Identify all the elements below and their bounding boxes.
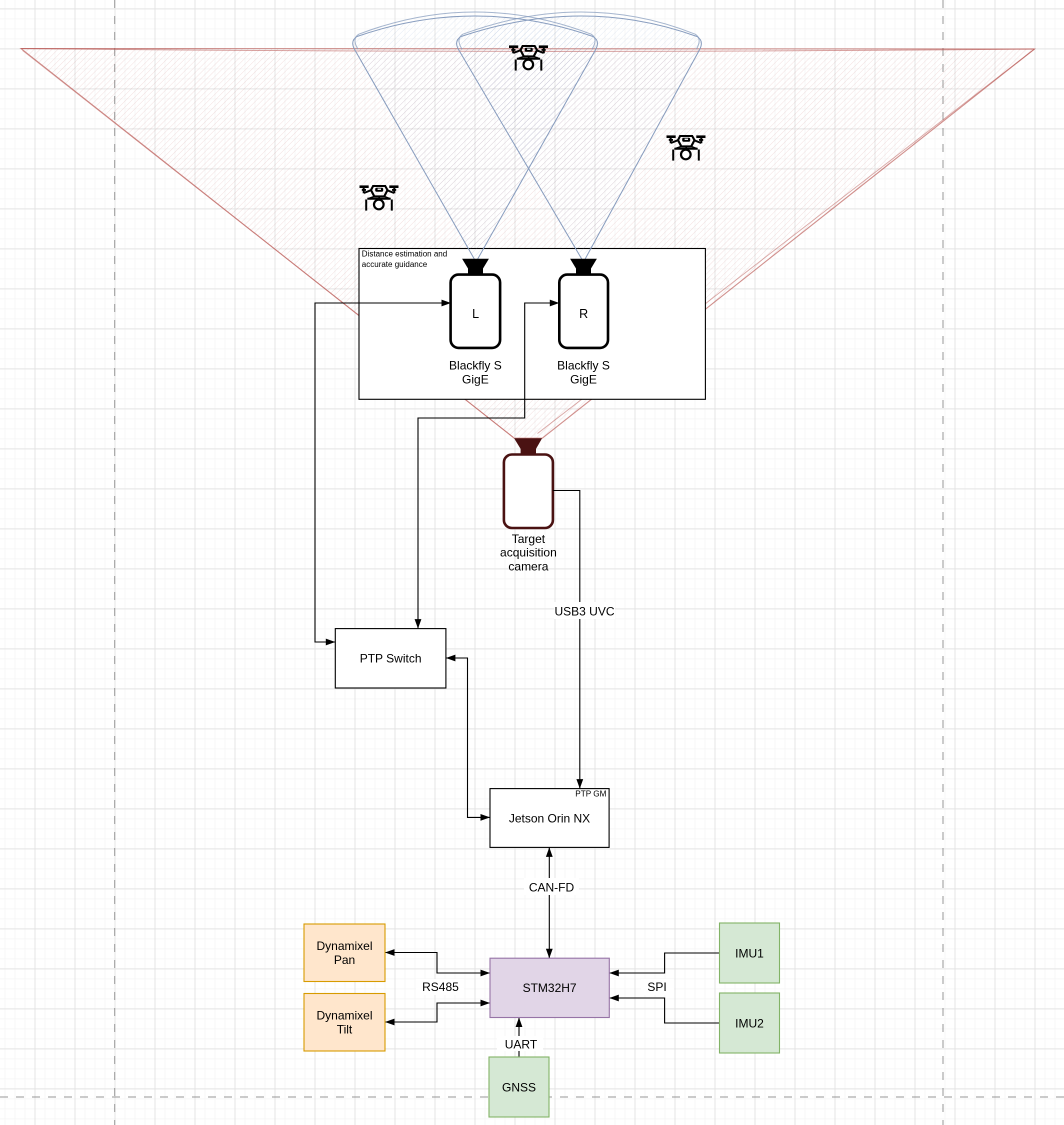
right camera R body [557, 259, 610, 387]
wire: target camera USB3 UVC to Jetson [553, 491, 615, 789]
svg-text:PTP GM: PTP GM [575, 790, 606, 799]
Dynamixel Tilt box [304, 994, 385, 1052]
red FOV cone of target acquisition camera [21, 49, 1035, 439]
svg-text:Tilt: Tilt [337, 1023, 353, 1037]
wire: PTP switch to Jetson [446, 655, 490, 821]
left camera L body [449, 259, 502, 387]
svg-text:Jetson Orin NX: Jetson Orin NX [509, 811, 590, 825]
STM32H7 box [490, 958, 609, 1017]
IMU2 box [720, 993, 780, 1053]
svg-text:camera: camera [508, 559, 548, 573]
target acquisition camera [500, 438, 557, 573]
Dynamixel Pan box [304, 924, 385, 982]
svg-text:IMU1: IMU1 [735, 946, 764, 960]
svg-text:PTP Switch: PTP Switch [360, 652, 422, 666]
drone icon right [667, 136, 706, 161]
svg-text:GNSS: GNSS [502, 1080, 536, 1094]
svg-text:Dynamixel: Dynamixel [316, 939, 372, 953]
wire: PTP switch to left camera L [315, 300, 451, 646]
svg-text:STM32H7: STM32H7 [523, 981, 577, 995]
svg-text:accurate guidance: accurate guidance [362, 260, 428, 269]
wire: STM32 to Dynamixel Tilt RS485 [385, 979, 490, 1025]
wire: STM32 to Dynamixel Pan RS485 [385, 949, 490, 976]
svg-text:CAN-FD: CAN-FD [529, 881, 575, 895]
wire: IMU2 to STM32 SPI [609, 979, 719, 1023]
svg-text:acquisition: acquisition [500, 546, 557, 560]
blue FOV cone of left camera [353, 16, 598, 262]
svg-text:Pan: Pan [334, 953, 355, 967]
svg-text:Target: Target [512, 532, 546, 546]
svg-text:RS485: RS485 [422, 980, 459, 994]
svg-text:Blackfly S: Blackfly S [557, 359, 610, 373]
wire: GNSS to STM32 UART dashed [497, 1018, 543, 1057]
svg-text:Blackfly S: Blackfly S [449, 359, 502, 373]
svg-text:R: R [579, 307, 588, 321]
svg-text:SPI: SPI [647, 980, 666, 994]
Jetson Orin NX box [490, 789, 609, 848]
page boundary dashed horizontal bottom [0, 1096, 1064, 1098]
svg-text:IMU2: IMU2 [735, 1016, 764, 1030]
svg-text:UART: UART [505, 1037, 538, 1051]
svg-text:Distance estimation and: Distance estimation and [362, 249, 447, 258]
wire: IMU1 to STM32 SPI [609, 953, 719, 976]
blue FOV cone of right camera [457, 16, 702, 262]
page boundary dashed vertical right [942, 0, 944, 1125]
wire: Jetson to STM32 CAN-FD [524, 847, 579, 958]
GNSS box [489, 1057, 549, 1117]
svg-text:Dynamixel: Dynamixel [316, 1009, 372, 1023]
stereo rig enclosure box: Distance estimation and accurate guidance [359, 249, 705, 400]
drone icon top center [509, 46, 548, 71]
red cone sketch double top edge [21, 49, 1035, 52]
svg-text:USB3 UVC: USB3 UVC [554, 605, 614, 619]
svg-text:GigE: GigE [462, 373, 489, 387]
svg-text:GigE: GigE [570, 373, 597, 387]
PTP Switch box [335, 629, 446, 688]
wire: PTP switch to right camera R [415, 300, 560, 629]
drone icon left [360, 186, 399, 211]
IMU1 box [720, 923, 780, 983]
svg-text:L: L [472, 307, 479, 321]
page boundary dashed vertical left [114, 0, 116, 1125]
